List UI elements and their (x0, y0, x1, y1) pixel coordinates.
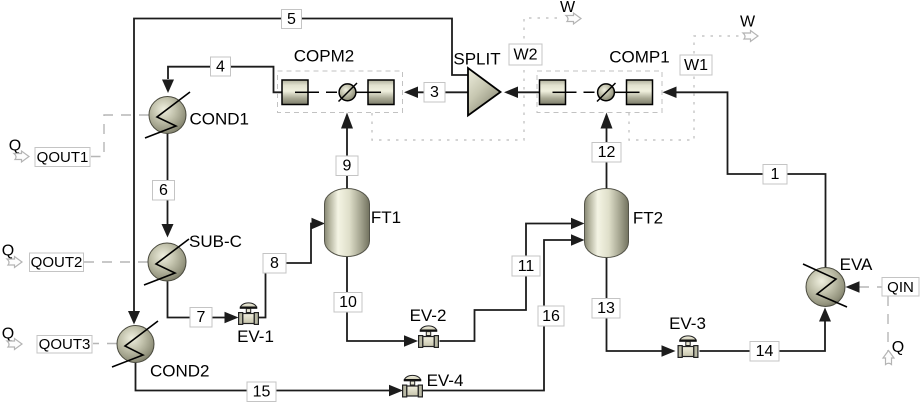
node 6 (153, 181, 175, 201)
node 9 (336, 156, 358, 176)
svg-text:EV-4: EV-4 (427, 371, 464, 390)
svg-text:EV-2: EV-2 (410, 306, 447, 325)
svg-text:QOUT2: QOUT2 (31, 254, 83, 271)
node 15 (247, 382, 276, 402)
valve EV-1 (239, 303, 259, 325)
wire stream 10 (FT1 to EV-2) (347, 256, 404, 341)
compressor COPM2 stage 1 (282, 80, 308, 105)
svg-text:QOUT1: QOUT1 (37, 149, 89, 166)
svg-text:SPLIT: SPLIT (453, 50, 500, 69)
node 8 (263, 254, 286, 274)
node QIN (882, 278, 919, 297)
node 12 (592, 143, 621, 163)
svg-text:4: 4 (216, 59, 225, 76)
compressor COMP1 link dash (566, 91, 598, 93)
wire stream 7 (SUB-C to EV-1) (168, 282, 225, 318)
svg-text:16: 16 (542, 308, 560, 325)
work stream W1 dotted route COMP1 to W glyph (629, 36, 740, 140)
svg-text:5: 5 (287, 11, 296, 28)
svg-text:W1: W1 (684, 57, 708, 74)
svg-text:11: 11 (518, 258, 535, 275)
svg-text:W2: W2 (514, 47, 538, 64)
wire stream 11 (EV-2 to FT2) (440, 224, 572, 342)
node 14 (750, 342, 779, 362)
compressor COMP1 rotor circle (598, 84, 615, 101)
node 16 (538, 306, 564, 326)
heater SUB-C (148, 243, 186, 281)
wire stream 16 (EV-4 to FT2) (423, 240, 572, 391)
svg-text:13: 13 (597, 300, 615, 317)
svg-text:10: 10 (339, 294, 357, 311)
svg-text:9: 9 (343, 158, 352, 175)
heat stream QIN arrow into EVA (846, 281, 860, 293)
heat stream QOUT1 dashed (91, 115, 149, 157)
svg-text:QOUT3: QOUT3 (39, 336, 91, 353)
flash drum FT2 (585, 189, 629, 258)
node 11 (512, 256, 540, 276)
node 4 (211, 57, 231, 76)
heat stream QIN dashed (859, 287, 888, 356)
wire stream 9 (FT1 to COPM2) (346, 129, 348, 189)
svg-text:7: 7 (197, 309, 206, 326)
flash drum FT1 (325, 189, 370, 257)
node 5 (282, 10, 302, 29)
wire stream 6 (COND1 to SUB-C) (167, 134, 169, 225)
wire stream 12 (FT2 to COMP1) (606, 129, 608, 189)
svg-text:EV-3: EV-3 (669, 314, 706, 333)
wire stream 8 (EV-1 to FT1) (259, 224, 313, 318)
node 13 (592, 299, 620, 319)
svg-text:FT2: FT2 (633, 209, 663, 228)
node 1 (763, 165, 787, 185)
svg-text:SUB-C: SUB-C (189, 232, 242, 251)
node W1 (680, 55, 712, 75)
compressor COMP1 stage 2 (627, 80, 653, 105)
node 7 (190, 308, 212, 328)
heater COND2 (117, 326, 154, 363)
wire stream 14 (EV-3 to EVA) (700, 322, 826, 352)
svg-text:EV-1: EV-1 (237, 327, 274, 346)
compressor COPM2 stage 2 (368, 80, 394, 105)
node 10 (334, 293, 362, 313)
svg-text:1: 1 (771, 166, 780, 183)
wire stream 4 (COPM2 to COND1) (168, 67, 282, 93)
svg-text:Q: Q (2, 243, 14, 260)
heat stream QOUT2 dashed (84, 261, 148, 263)
wire stream 5 (SPLIT top to COND2) (134, 19, 468, 312)
heat stream QOUT3 dashed (93, 343, 117, 345)
heater EVA (806, 268, 845, 307)
compressor COPM2 rotor circle (339, 84, 356, 101)
wire stream 15 (COND2 to EV-4) (136, 362, 390, 391)
svg-text:FT1: FT1 (371, 208, 401, 227)
valve EV-4 (403, 375, 423, 396)
compressor COMP1 stage 1 (540, 80, 566, 105)
valve EV-3 (678, 336, 698, 358)
svg-text:Q: Q (9, 138, 21, 155)
svg-text:15: 15 (253, 384, 271, 401)
svg-text:W: W (740, 14, 756, 31)
svg-text:12: 12 (598, 144, 616, 161)
node W2 (509, 44, 542, 65)
svg-text:Q: Q (2, 326, 14, 343)
wire stream 13 (FT2 to EV-3) (607, 258, 662, 352)
svg-text:QIN: QIN (887, 279, 914, 296)
svg-text:14: 14 (756, 343, 774, 360)
compressor COMP1 dashed icon box (537, 71, 662, 113)
svg-text:EVA: EVA (840, 255, 873, 274)
wire stream W2 (COMP1 to SPLIT) (518, 91, 540, 93)
svg-text:COND2: COND2 (150, 362, 210, 381)
svg-text:Q: Q (892, 339, 904, 356)
wire stream 3 (SPLIT to COPM2) (418, 91, 468, 93)
svg-text:COMP1: COMP1 (609, 48, 669, 67)
valve EV-2 (419, 326, 439, 348)
svg-text:3: 3 (430, 84, 439, 101)
heater COND1 (149, 97, 186, 134)
svg-text:8: 8 (270, 255, 279, 272)
node 3 (424, 83, 445, 103)
compressor COPM2 dashed icon box (278, 71, 403, 113)
work stream W2 dotted route COPM2 to W glyph (372, 18, 563, 140)
svg-text:COPM2: COPM2 (294, 47, 354, 66)
svg-text:COND1: COND1 (190, 110, 250, 129)
splitter SPLIT (468, 68, 501, 116)
svg-text:6: 6 (159, 182, 168, 199)
compressor COPM2 link dash (308, 91, 339, 93)
wire stream 1 (EVA to COMP1) (677, 92, 826, 268)
